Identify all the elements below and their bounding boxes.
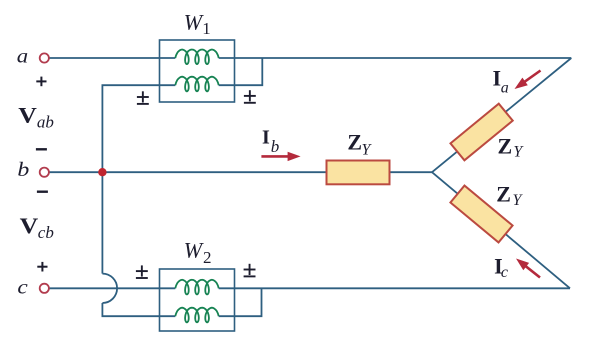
current arrow Ib	[261, 152, 300, 161]
label Vcb	[20, 215, 39, 239]
wire: line a from terminal a into W1 current coil and on to right corner	[49, 57, 571, 59]
svg-text:b: b	[271, 137, 280, 156]
label Ib	[262, 127, 279, 156]
label a	[17, 45, 28, 67]
load impedance ZY (line b, horizontal)	[327, 161, 390, 185]
W2 polarity mark left	[136, 265, 148, 278]
wire: line b from load ZY to neutral node	[390, 171, 433, 173]
svg-text:c: c	[501, 264, 508, 281]
svg-text:Z: Z	[347, 129, 362, 154]
svg-text:V: V	[18, 104, 37, 128]
label Ic	[494, 253, 508, 281]
label ZY (upper)	[498, 133, 525, 160]
W2 polarity mark right	[244, 264, 256, 277]
W1 current coil (in line a)	[175, 50, 218, 65]
svg-text:2: 2	[203, 248, 212, 267]
wattmeter W2 box	[160, 269, 235, 331]
wire: W1 voltage-coil right lead up to line a	[219, 58, 263, 85]
W2 current coil (in line c)	[175, 280, 218, 295]
current arrow Ic	[516, 259, 540, 278]
label b	[17, 158, 29, 181]
wire: diagonal from line a corner down to neutral node	[432, 58, 571, 172]
svg-text:b: b	[17, 158, 29, 181]
svg-text:a: a	[501, 79, 509, 96]
load impedance ZY (phase a, rotated)	[450, 104, 512, 161]
wire: W2 voltage-coil right lead up to line c	[219, 288, 262, 316]
label Ia	[493, 66, 509, 97]
current arrow Ia	[515, 71, 541, 90]
wire: diagonal from line c corner up to neutral node	[432, 172, 570, 288]
svg-text:a: a	[17, 45, 28, 67]
svg-text:cb: cb	[38, 223, 54, 242]
terminal c	[40, 284, 49, 293]
W2 voltage coil	[175, 308, 218, 323]
wire: line b from terminal b to load ZY	[49, 171, 327, 173]
svg-text:Z: Z	[498, 133, 513, 158]
W1 voltage coil	[175, 77, 218, 92]
label ZY (lower)	[496, 182, 523, 210]
label ZY (middle)	[347, 129, 372, 158]
label c	[17, 276, 28, 298]
svg-text:Z: Z	[496, 182, 511, 207]
svg-text:W: W	[184, 10, 204, 35]
svg-text:1: 1	[202, 19, 211, 38]
minus sign of Vcb	[37, 190, 48, 192]
wire: line c from terminal c into W2 current coil and on to right corner	[49, 287, 570, 289]
wattmeter W2 label	[184, 238, 212, 267]
terminal b	[40, 168, 49, 177]
label Vab	[18, 104, 37, 128]
node on line b (junction dot)	[98, 168, 106, 176]
plus sign of Vcb	[37, 262, 47, 272]
plus sign of Vab	[36, 77, 46, 87]
load impedance ZY (phase c, rotated)	[450, 186, 512, 243]
wire: W1 voltage-coil left lead down to node on line b	[102, 85, 175, 172]
W1 polarity mark left	[137, 91, 149, 104]
svg-text:c: c	[17, 276, 28, 298]
svg-text:V: V	[20, 215, 39, 239]
svg-text:W: W	[184, 238, 204, 263]
terminal a	[40, 53, 49, 62]
svg-text:I: I	[262, 127, 270, 149]
svg-text:ab: ab	[37, 113, 54, 132]
wattmeter W1 label	[184, 10, 211, 38]
minus sign of Vab	[36, 148, 47, 150]
wattmeter W1 box	[160, 40, 235, 102]
wire: W2 voltage-coil lead from node b down, with crossover hop over line c	[102, 172, 175, 316]
W1 polarity mark right	[244, 90, 256, 103]
